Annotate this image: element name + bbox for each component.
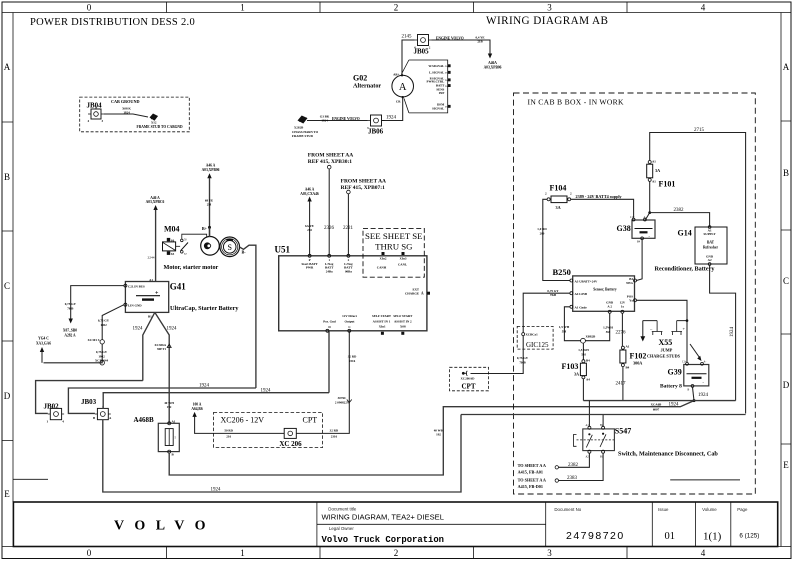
- svg-text:A-: A-: [644, 216, 647, 219]
- border frame left ticks: [2, 122, 13, 441]
- wire arrow to M04 B+: [209, 178, 211, 237]
- svg-text:W.SIGNAL: W.SIGNAL: [428, 64, 444, 68]
- svg-text:E: E: [783, 460, 789, 470]
- dashed box IN CAB B BOX: [514, 93, 756, 494]
- wire S547 right pole riser to bus C: [602, 415, 604, 427]
- wire XPB07 to U51: [347, 194, 349, 256]
- connector JB05: [414, 35, 432, 56]
- svg-text:B4: B4: [586, 359, 590, 363]
- U51 pin SELF START ASSIST IN 1 XIn1: [372, 314, 392, 335]
- svg-text:3A: 3A: [556, 205, 561, 210]
- wire B250 Gnd A1 to ring X0B2B: [564, 307, 580, 341]
- svg-text:A415, FB-A01: A415, FB-A01: [518, 469, 543, 474]
- title block frame: [13, 502, 777, 547]
- svg-text:1924: 1924: [199, 384, 210, 389]
- wire B250 LINB to GIC125: [523, 293, 570, 332]
- svg-text:Sensor, Battery: Sensor, Battery: [593, 288, 617, 292]
- svg-text:BAT: BAT: [707, 241, 715, 245]
- wire JB06 to chassis stud: [307, 120, 368, 122]
- alternator G02 circle: [392, 75, 414, 97]
- svg-text:Issue: Issue: [658, 507, 669, 512]
- to-sheet terminal 2383: [518, 478, 559, 489]
- wire 100A arrow to XC206: [195, 416, 285, 433]
- U51 pin L/Neg BATT 00Ba: [344, 254, 353, 273]
- svg-text:192: 192: [167, 405, 172, 409]
- node M04 B+: [208, 226, 211, 229]
- starter M04 switch: [176, 239, 188, 257]
- alternator G02 box: [402, 60, 448, 113]
- svg-text:G39: G39: [668, 368, 682, 377]
- svg-text:+: +: [155, 291, 159, 297]
- alternator pin L.SIGNAL: [429, 71, 450, 75]
- svg-text:1924: 1924: [133, 327, 144, 332]
- dashed box SEE SHEET SE THRU SG: [363, 228, 424, 277]
- svg-text:2: 2: [394, 548, 399, 558]
- from-sheet reference 1: [308, 153, 353, 169]
- svg-text:1924: 1924: [669, 402, 680, 407]
- wire GIC125 to CPT connector: [471, 336, 524, 374]
- fuse A468B: [134, 416, 180, 457]
- svg-text:CHARGE: CHARGE: [405, 292, 419, 296]
- svg-text:2M: 2M: [307, 228, 312, 232]
- fuse F104: [545, 184, 572, 211]
- svg-text:2389 - 24V BATT4 supply: 2389 - 24V BATT4 supply: [576, 194, 623, 199]
- wire G41 LIN GND to XC301: [102, 305, 124, 340]
- svg-text:D: D: [783, 380, 790, 390]
- svg-text:50 RD: 50 RD: [224, 429, 233, 433]
- svg-text:TO SHEET A A: TO SHEET A A: [518, 478, 546, 483]
- wire G41 B1 left diagonal 1924: [143, 312, 155, 380]
- svg-text:FRAME STUD TO CABGND: FRAME STUD TO CABGND: [137, 125, 183, 129]
- svg-text:Motor, starter motor: Motor, starter motor: [164, 264, 219, 271]
- node 2382 junction: [648, 211, 651, 214]
- svg-text:4: 4: [701, 548, 706, 558]
- svg-text:F104: F104: [550, 184, 567, 193]
- svg-text:PWR: PWR: [306, 266, 314, 270]
- battery sensor G38: [617, 216, 656, 244]
- fuse F101: [647, 160, 660, 184]
- svg-text:WIRING DIAGRAM, TEA2+ DIESEL: WIRING DIAGRAM, TEA2+ DIESEL: [322, 513, 444, 522]
- svg-text:JB04: JB04: [87, 102, 103, 110]
- svg-text:S6: S6: [171, 238, 175, 242]
- svg-text:00Ba: 00Ba: [345, 269, 352, 273]
- border frame left inner line: [12, 13, 14, 503]
- arrow up 100A: [192, 412, 196, 417]
- battery G41 box: [124, 278, 169, 319]
- svg-text:XCBCx1: XCBCx1: [526, 333, 539, 337]
- U51 pin Pos.Gnd D: [323, 320, 336, 333]
- svg-text:4: 4: [701, 3, 706, 13]
- svg-text:1(1): 1(1): [703, 531, 722, 543]
- svg-text:TO SHEET A A: TO SHEET A A: [518, 463, 546, 468]
- svg-text:A468B: A468B: [134, 416, 155, 424]
- wire G41 B1 right diagonal 1924: [155, 312, 169, 423]
- svg-text:F101: F101: [659, 180, 676, 189]
- svg-text:1924: 1924: [730, 327, 735, 338]
- wire F104 left to B250 UBATT: [543, 199, 570, 280]
- svg-text:2276: 2276: [616, 331, 627, 336]
- dashed box CPT: [450, 367, 489, 391]
- ring terminal XCB9644: [100, 361, 104, 365]
- bottom strip line: [2, 546, 791, 548]
- svg-text:XC206 - 12V: XC206 - 12V: [221, 416, 265, 425]
- svg-text:C21.IN BUS: C21.IN BUS: [128, 284, 145, 288]
- wire G38 B to B250 NEG: [637, 240, 643, 281]
- U51 pin L/Neg BATT 24Ba: [325, 254, 334, 273]
- svg-text:1924: 1924: [698, 393, 709, 398]
- svg-text:F102: F102: [630, 352, 647, 361]
- wire 2715 F101 top: [650, 133, 746, 414]
- svg-text:Document title: Document title: [328, 507, 357, 512]
- svg-text:2316: 2316: [331, 435, 338, 439]
- svg-text:REF 415, XPB30:1: REF 415, XPB30:1: [308, 159, 353, 165]
- svg-text:2244: 2244: [148, 255, 155, 259]
- svg-text:Reconditioner, Battery: Reconditioner, Battery: [655, 266, 716, 273]
- svg-text:A3 UBATT+24V: A3 UBATT+24V: [575, 279, 598, 283]
- svg-text:1x: 1x: [621, 304, 625, 308]
- U51 pin XIn2 CANH: [377, 252, 387, 270]
- svg-text:XC301 S: XC301 S: [88, 338, 100, 342]
- svg-text:0: 0: [87, 3, 92, 13]
- svg-text:SELF START: SELF START: [372, 314, 392, 318]
- svg-text:3A: 3A: [655, 168, 660, 173]
- bus L3 wire U51 D to JB03 top: [103, 393, 329, 409]
- svg-text:CPT: CPT: [303, 416, 318, 425]
- connector XC206 symbol: [279, 428, 302, 448]
- jump charge studs X55: [643, 321, 687, 335]
- svg-text:A1: A1: [149, 278, 153, 282]
- connector pin XCBCx1: [522, 333, 525, 336]
- svg-text:A: A: [4, 62, 11, 72]
- ring terminal XC301: [100, 340, 104, 344]
- wire F101 to G38 junction 2382: [646, 181, 650, 219]
- svg-text:XCB9644: XCB9644: [95, 358, 109, 362]
- wire ring to F103: [582, 343, 584, 359]
- svg-text:Alternator: Alternator: [353, 83, 381, 90]
- svg-text:2: 2: [394, 3, 399, 13]
- svg-text:3A: 3A: [574, 372, 579, 377]
- svg-text:01: 01: [665, 531, 676, 542]
- bus L2 wire to JB03: [68, 388, 256, 413]
- arrow up YG4C: [40, 347, 44, 352]
- svg-text:2383: 2383: [567, 476, 578, 481]
- wire JB04 to frame stud: [104, 114, 148, 117]
- alternator pin W.SIGNAL: [428, 64, 450, 68]
- svg-text:S: S: [227, 243, 231, 252]
- svg-text:X55: X55: [659, 338, 673, 347]
- svg-text:A1: A1: [652, 160, 656, 164]
- svg-text:NEG: NEG: [626, 281, 633, 285]
- svg-text:1924: 1924: [211, 488, 222, 493]
- dashed box GIC125: [517, 326, 553, 349]
- svg-text:A 2: A 2: [607, 304, 612, 308]
- wire arrow to G41 A1: [155, 210, 157, 282]
- svg-text:AR+: AR+: [393, 73, 400, 77]
- svg-text:7KB: 7KB: [550, 293, 557, 297]
- svg-text:192: 192: [436, 433, 441, 437]
- svg-text:A2: A2: [708, 258, 712, 262]
- node X55 right rail junction: [686, 319, 689, 322]
- svg-text:A1: A1: [626, 345, 630, 349]
- svg-text:0: 0: [87, 548, 92, 558]
- svg-text:U51: U51: [275, 245, 291, 255]
- svg-text:IN CAB B BOX - IN WORK: IN CAB B BOX - IN WORK: [528, 98, 625, 107]
- svg-text:A1 Gnde: A1 Gnde: [575, 306, 588, 310]
- arrow A46A above U51 P: [307, 197, 311, 202]
- svg-text:Document No: Document No: [554, 507, 581, 512]
- svg-text:1924: 1924: [261, 389, 272, 394]
- svg-text:JUMP: JUMP: [661, 348, 673, 353]
- wire JB03 bottom bus to S547 riser: [103, 415, 461, 493]
- wire F103 to 1924 bus B: [582, 379, 584, 401]
- svg-text:XCA6B: XCA6B: [651, 402, 662, 406]
- svg-text:REF 415, XPB07:1: REF 415, XPB07:1: [341, 185, 386, 191]
- wire alternator CR to JB06: [382, 97, 403, 120]
- svg-text:M04: M04: [164, 225, 180, 234]
- svg-text:L.SIGNAL: L.SIGNAL: [429, 71, 444, 75]
- wire 2382 to G14: [650, 213, 710, 227]
- ground chassis stud X202B: [292, 116, 319, 139]
- svg-text:SUPPLY: SUPPLY: [704, 232, 717, 236]
- svg-text:A: A: [421, 292, 424, 296]
- svg-text:FROM SHEET AA: FROM SHEET AA: [341, 179, 386, 185]
- svg-text:94ET1: 94ET1: [157, 347, 166, 351]
- wire M04 B- to L2 bus: [240, 245, 256, 388]
- U51 pin EXT CHARGE A: [405, 288, 430, 296]
- svg-text:Switch, Maintenance Disconnect: Switch, Maintenance Disconnect, Cab: [618, 451, 718, 458]
- from-sheet reference 2: [341, 179, 386, 194]
- wire switch top to solenoid: [182, 234, 207, 239]
- U51 pin 12V Direct Output C: [342, 314, 358, 332]
- svg-text:Page: Page: [737, 507, 748, 512]
- svg-text:B: B: [783, 168, 789, 178]
- svg-text:A: A: [399, 82, 407, 93]
- splice chevron on C wire: [347, 400, 352, 403]
- wire JB05 to A46A arrow: [432, 40, 491, 54]
- svg-text:ENGINE VOLVO: ENGINE VOLVO: [332, 117, 360, 121]
- wire X55 left rail to arrow: [642, 321, 644, 337]
- connector JB06: [367, 115, 385, 136]
- svg-text:Yx: Yx: [629, 298, 633, 302]
- arrow A46A above M04 B+: [207, 173, 211, 178]
- svg-text:A1: A1: [172, 420, 176, 424]
- svg-text:2145: 2145: [402, 35, 413, 40]
- alternator pin BATT SENS INP: [436, 84, 451, 95]
- svg-text:B: B: [4, 172, 10, 182]
- bottom ticks: [167, 547, 628, 559]
- node alternator top: [401, 74, 403, 76]
- svg-text:1: 1: [240, 3, 245, 13]
- wire U51 D down: [328, 331, 330, 393]
- svg-text:21B: 21B: [477, 39, 483, 43]
- svg-text:G38: G38: [617, 224, 631, 233]
- svg-text:1924: 1924: [123, 110, 130, 114]
- starter M04 motor circle: [220, 237, 240, 257]
- bus 1924 B: [583, 400, 735, 402]
- wire XC206 to U51 C: [296, 331, 349, 433]
- svg-text:7KB: 7KB: [519, 360, 526, 364]
- U51 pin P Start BATT PWR: [302, 254, 319, 269]
- svg-text:B-: B-: [242, 250, 247, 255]
- svg-text:1902: 1902: [100, 323, 107, 327]
- border frame right ticks: [781, 121, 791, 444]
- svg-text:12V Direct: 12V Direct: [342, 314, 358, 318]
- svg-text:A-: A-: [704, 361, 707, 364]
- wire jump diag to G39 A-: [690, 344, 700, 358]
- alternator pin P.SIGNAL PWM.CTRL: [427, 76, 451, 83]
- wire F104 right to G38 C1: [571, 199, 634, 218]
- svg-text:CHARGE STUDS: CHARGE STUDS: [647, 354, 681, 359]
- wire G41 C21 pin to X07 arrow: [71, 286, 124, 319]
- svg-text:ASSIST IN 2: ASSIST IN 2: [394, 320, 412, 324]
- svg-text:3: 3: [547, 548, 552, 558]
- wire G39 B to 1924 bus: [693, 387, 695, 400]
- connector JB04: [87, 102, 105, 124]
- arrow to A46A XPB06: [488, 54, 492, 59]
- node alternator bottom: [402, 96, 404, 98]
- svg-text:LIN GND: LIN GND: [128, 303, 142, 307]
- svg-text:A415, FB-D01: A415, FB-D01: [518, 484, 543, 489]
- wire A468B bottom bus to XCA6B: [169, 401, 694, 475]
- svg-text:280: 280: [540, 231, 545, 235]
- svg-text:A282 A: A282 A: [64, 333, 76, 337]
- battery G39: [668, 361, 709, 392]
- svg-text:JB05: JB05: [414, 48, 430, 56]
- wire XPB30 to U51: [328, 169, 330, 256]
- svg-text:C1+: C1+: [630, 216, 635, 219]
- svg-text:G02: G02: [353, 74, 367, 83]
- svg-text:FROM SHEET AA: FROM SHEET AA: [308, 153, 353, 159]
- svg-text:300A: 300A: [633, 361, 642, 366]
- node bus B G39 junction: [693, 399, 696, 402]
- svg-text:WIRING DIAGRAM AB: WIRING DIAGRAM AB: [486, 15, 608, 27]
- svg-text:2M: 2M: [207, 202, 212, 206]
- svg-text:SIGNAL: SIGNAL: [432, 106, 444, 110]
- ECU U51 box: [279, 256, 427, 331]
- svg-text:A: A: [783, 62, 790, 72]
- JB04 cab ground dashed box: [80, 97, 190, 132]
- connector XC206AD symbol: [461, 371, 476, 391]
- svg-text:C1+: C1+: [682, 361, 687, 364]
- svg-text:THRU SG: THRU SG: [375, 242, 413, 252]
- svg-text:X0B2B: X0B2B: [586, 335, 597, 339]
- svg-text:SELF START: SELF START: [393, 314, 413, 318]
- switch S547: [574, 424, 615, 459]
- svg-text:XA3,GA6: XA3,GA6: [36, 341, 51, 345]
- svg-text:F103: F103: [562, 362, 579, 371]
- starter M04 coil: [163, 238, 176, 256]
- svg-text:A03,XPB06: A03,XPB06: [484, 65, 502, 69]
- svg-text:7KB: 7KB: [67, 307, 74, 311]
- connector box XC206 dashed: [214, 412, 323, 447]
- wire 2382 to S547: [559, 453, 590, 467]
- svg-text:S5: S5: [171, 252, 175, 256]
- svg-text:G14: G14: [678, 229, 692, 238]
- svg-text:VOLVO: VOLVO: [114, 519, 216, 534]
- svg-text:JB06: JB06: [368, 128, 384, 136]
- U51 pin XIn3 CANL: [398, 252, 407, 267]
- wire 2383 to S547: [559, 453, 604, 480]
- svg-text:C: C: [4, 281, 10, 291]
- svg-text:2316: 2316: [349, 359, 356, 363]
- svg-text:Battery 8: Battery 8: [660, 384, 682, 390]
- svg-text:SEE SHEET SE: SEE SHEET SE: [365, 231, 423, 241]
- svg-text:B: B: [688, 389, 690, 392]
- svg-text:A03,XPB06: A03,XPB06: [202, 168, 220, 172]
- svg-text:2382: 2382: [568, 463, 579, 468]
- wire B250 GND A2 to ring: [585, 313, 609, 340]
- starter M04 solenoid circle: [201, 237, 220, 256]
- wire S547 left pole riser: [588, 401, 590, 427]
- svg-text:X07_SB0: X07_SB0: [63, 329, 77, 333]
- svg-text:1924: 1924: [321, 118, 328, 122]
- svg-text:XC206AD: XC206AD: [461, 377, 476, 381]
- svg-text:0,75 GY: 0,75 GY: [65, 302, 77, 306]
- arrow down X55 left: [640, 336, 645, 341]
- svg-text:C: C: [783, 276, 789, 286]
- ground frame stud to cab: [137, 114, 183, 129]
- svg-text:A1: A1: [652, 180, 656, 184]
- svg-text:Pos. Gnd: Pos. Gnd: [323, 320, 336, 324]
- svg-text:UltraCap, Starter Battery: UltraCap, Starter Battery: [170, 305, 239, 312]
- svg-text:Refresher: Refresher: [703, 246, 719, 250]
- svg-text:FRAME STUD: FRAME STUD: [292, 134, 314, 138]
- U51 pin SELF START ASSIST IN 2 X08: [393, 314, 413, 335]
- border frame top strip line: [2, 12, 791, 14]
- svg-text:B+: B+: [202, 226, 208, 231]
- wire B250 POS to G39 C1: [637, 300, 688, 362]
- svg-text:INP: INP: [439, 91, 445, 95]
- svg-text:XIn1: XIn1: [379, 325, 386, 329]
- svg-text:X08: X08: [400, 325, 406, 329]
- svg-text:Volvo Truck Corporation: Volvo Truck Corporation: [322, 535, 445, 545]
- fuse F102: [620, 345, 630, 370]
- svg-text:A64,B6: A64,B6: [191, 407, 202, 411]
- svg-text:E: E: [4, 489, 10, 499]
- svg-text:ASSIST IN 1: ASSIST IN 1: [373, 320, 391, 324]
- svg-text:A4: A4: [586, 378, 590, 382]
- svg-text:B4: B4: [626, 366, 630, 370]
- svg-text:GIC125: GIC125: [526, 341, 549, 349]
- svg-text:ENGINE VOLVO: ENGINE VOLVO: [436, 36, 464, 40]
- svg-text:Volume: Volume: [702, 507, 717, 512]
- connector JB03: [81, 398, 112, 420]
- fuse F103: [562, 359, 591, 382]
- svg-text:6007: 6007: [653, 407, 660, 411]
- wire G14 GND to 1924 bus: [710, 265, 736, 400]
- arrow down X07: [69, 319, 73, 324]
- svg-text:XIn2: XIn2: [380, 257, 387, 261]
- wire F102 to 1924 bus B: [622, 367, 624, 401]
- svg-text:CANH: CANH: [377, 266, 387, 270]
- splice XC306A: [167, 344, 171, 348]
- svg-text:POWER DISTRIBUTION DESS 2.0: POWER DISTRIBUTION DESS 2.0: [30, 17, 195, 28]
- svg-text:Legal Owner: Legal Owner: [329, 526, 354, 531]
- svg-text:CAB GROUND: CAB GROUND: [111, 99, 140, 104]
- bus L1 wire to JB02: [36, 381, 143, 414]
- svg-text:S547: S547: [615, 427, 631, 436]
- wire arrow to U51 P: [309, 201, 311, 256]
- wire B250 12V to F102: [621, 313, 623, 346]
- svg-text:216: 216: [226, 435, 231, 439]
- wire M04 B+ into solenoid: [209, 227, 211, 237]
- arrow A46A above G41: [153, 205, 157, 210]
- svg-text:JB03: JB03: [81, 398, 97, 406]
- svg-text:1924: 1924: [167, 327, 178, 332]
- svg-text:2382: 2382: [674, 208, 685, 213]
- alternator pin DFM SIGNAL: [432, 103, 451, 111]
- svg-text:5M: 5M: [581, 352, 586, 356]
